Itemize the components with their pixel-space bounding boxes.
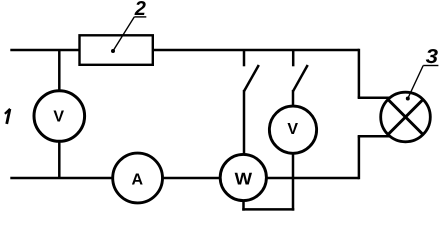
wire: lamp upper lead horizontal	[358, 97, 390, 100]
wire: middle voltmeter lower lead crossing bottom bus	[292, 150, 295, 211]
switch S1: open blade diagonal	[244, 65, 259, 91]
svg-text:V: V	[53, 108, 64, 125]
svg-text:3: 3	[426, 46, 438, 68]
wire: wattmeter bottom stub	[242, 198, 245, 211]
resistor R (load) rectangle, callout 2	[80, 35, 153, 65]
leader line for label 3: diagonal into lamp	[408, 66, 423, 99]
switch S2: fixed stub from top bus	[292, 50, 295, 66]
voltmeter PV1 circle	[34, 91, 85, 142]
leader line for label 3: underline	[423, 65, 438, 67]
wattmeter PW circle	[220, 154, 266, 200]
lamp EL cross diagonal (lower-left to upper-right)	[387, 99, 424, 136]
svg-text:A: A	[132, 172, 144, 189]
switch S1: fixed stub from top bus	[243, 50, 246, 66]
wire: switch S2 lower lead down to middle voltmeter	[292, 90, 295, 110]
wire: left voltmeter lower lead (junction on bottom bus)	[58, 139, 61, 178]
voltmeter PV2 (middle) circle	[269, 106, 316, 153]
wire: left voltmeter upper lead (junction on top bus)	[58, 50, 61, 93]
wire: right side vertical from lamp lower lead down to bottom bus	[358, 136, 361, 179]
switch S2: open blade diagonal	[293, 65, 308, 91]
leader line for label 2: diagonal into resistor	[113, 17, 134, 51]
lamp EL circle, callout 3	[381, 92, 431, 142]
lamp EL cross diagonal (upper-left to lower-right)	[387, 99, 424, 136]
ammeter PA circle	[113, 153, 163, 203]
leader line for label 2: underline	[134, 16, 146, 18]
wire: switch S1 lower lead down to wattmeter W	[243, 90, 246, 158]
wire: right side vertical drop from top bus to lamp upper lead	[358, 49, 361, 98]
wire: lamp lower lead horizontal	[358, 135, 390, 138]
label 1 (left voltmeter callout numeral), drawn as strokes (italic numeral without foot serif)	[5, 109, 10, 124]
svg-text:V: V	[287, 121, 298, 138]
leader dot for label 2	[111, 49, 115, 53]
wire: bottom loop horizontal from W bottom to V bottom	[242, 208, 294, 211]
wire: bottom bus (left terminal through A and W to right vertical)	[10, 177, 359, 180]
svg-text:W: W	[235, 170, 253, 189]
wire: top bus (left terminal to top-right corner)	[10, 49, 359, 52]
leader dot for label 3	[406, 97, 410, 101]
